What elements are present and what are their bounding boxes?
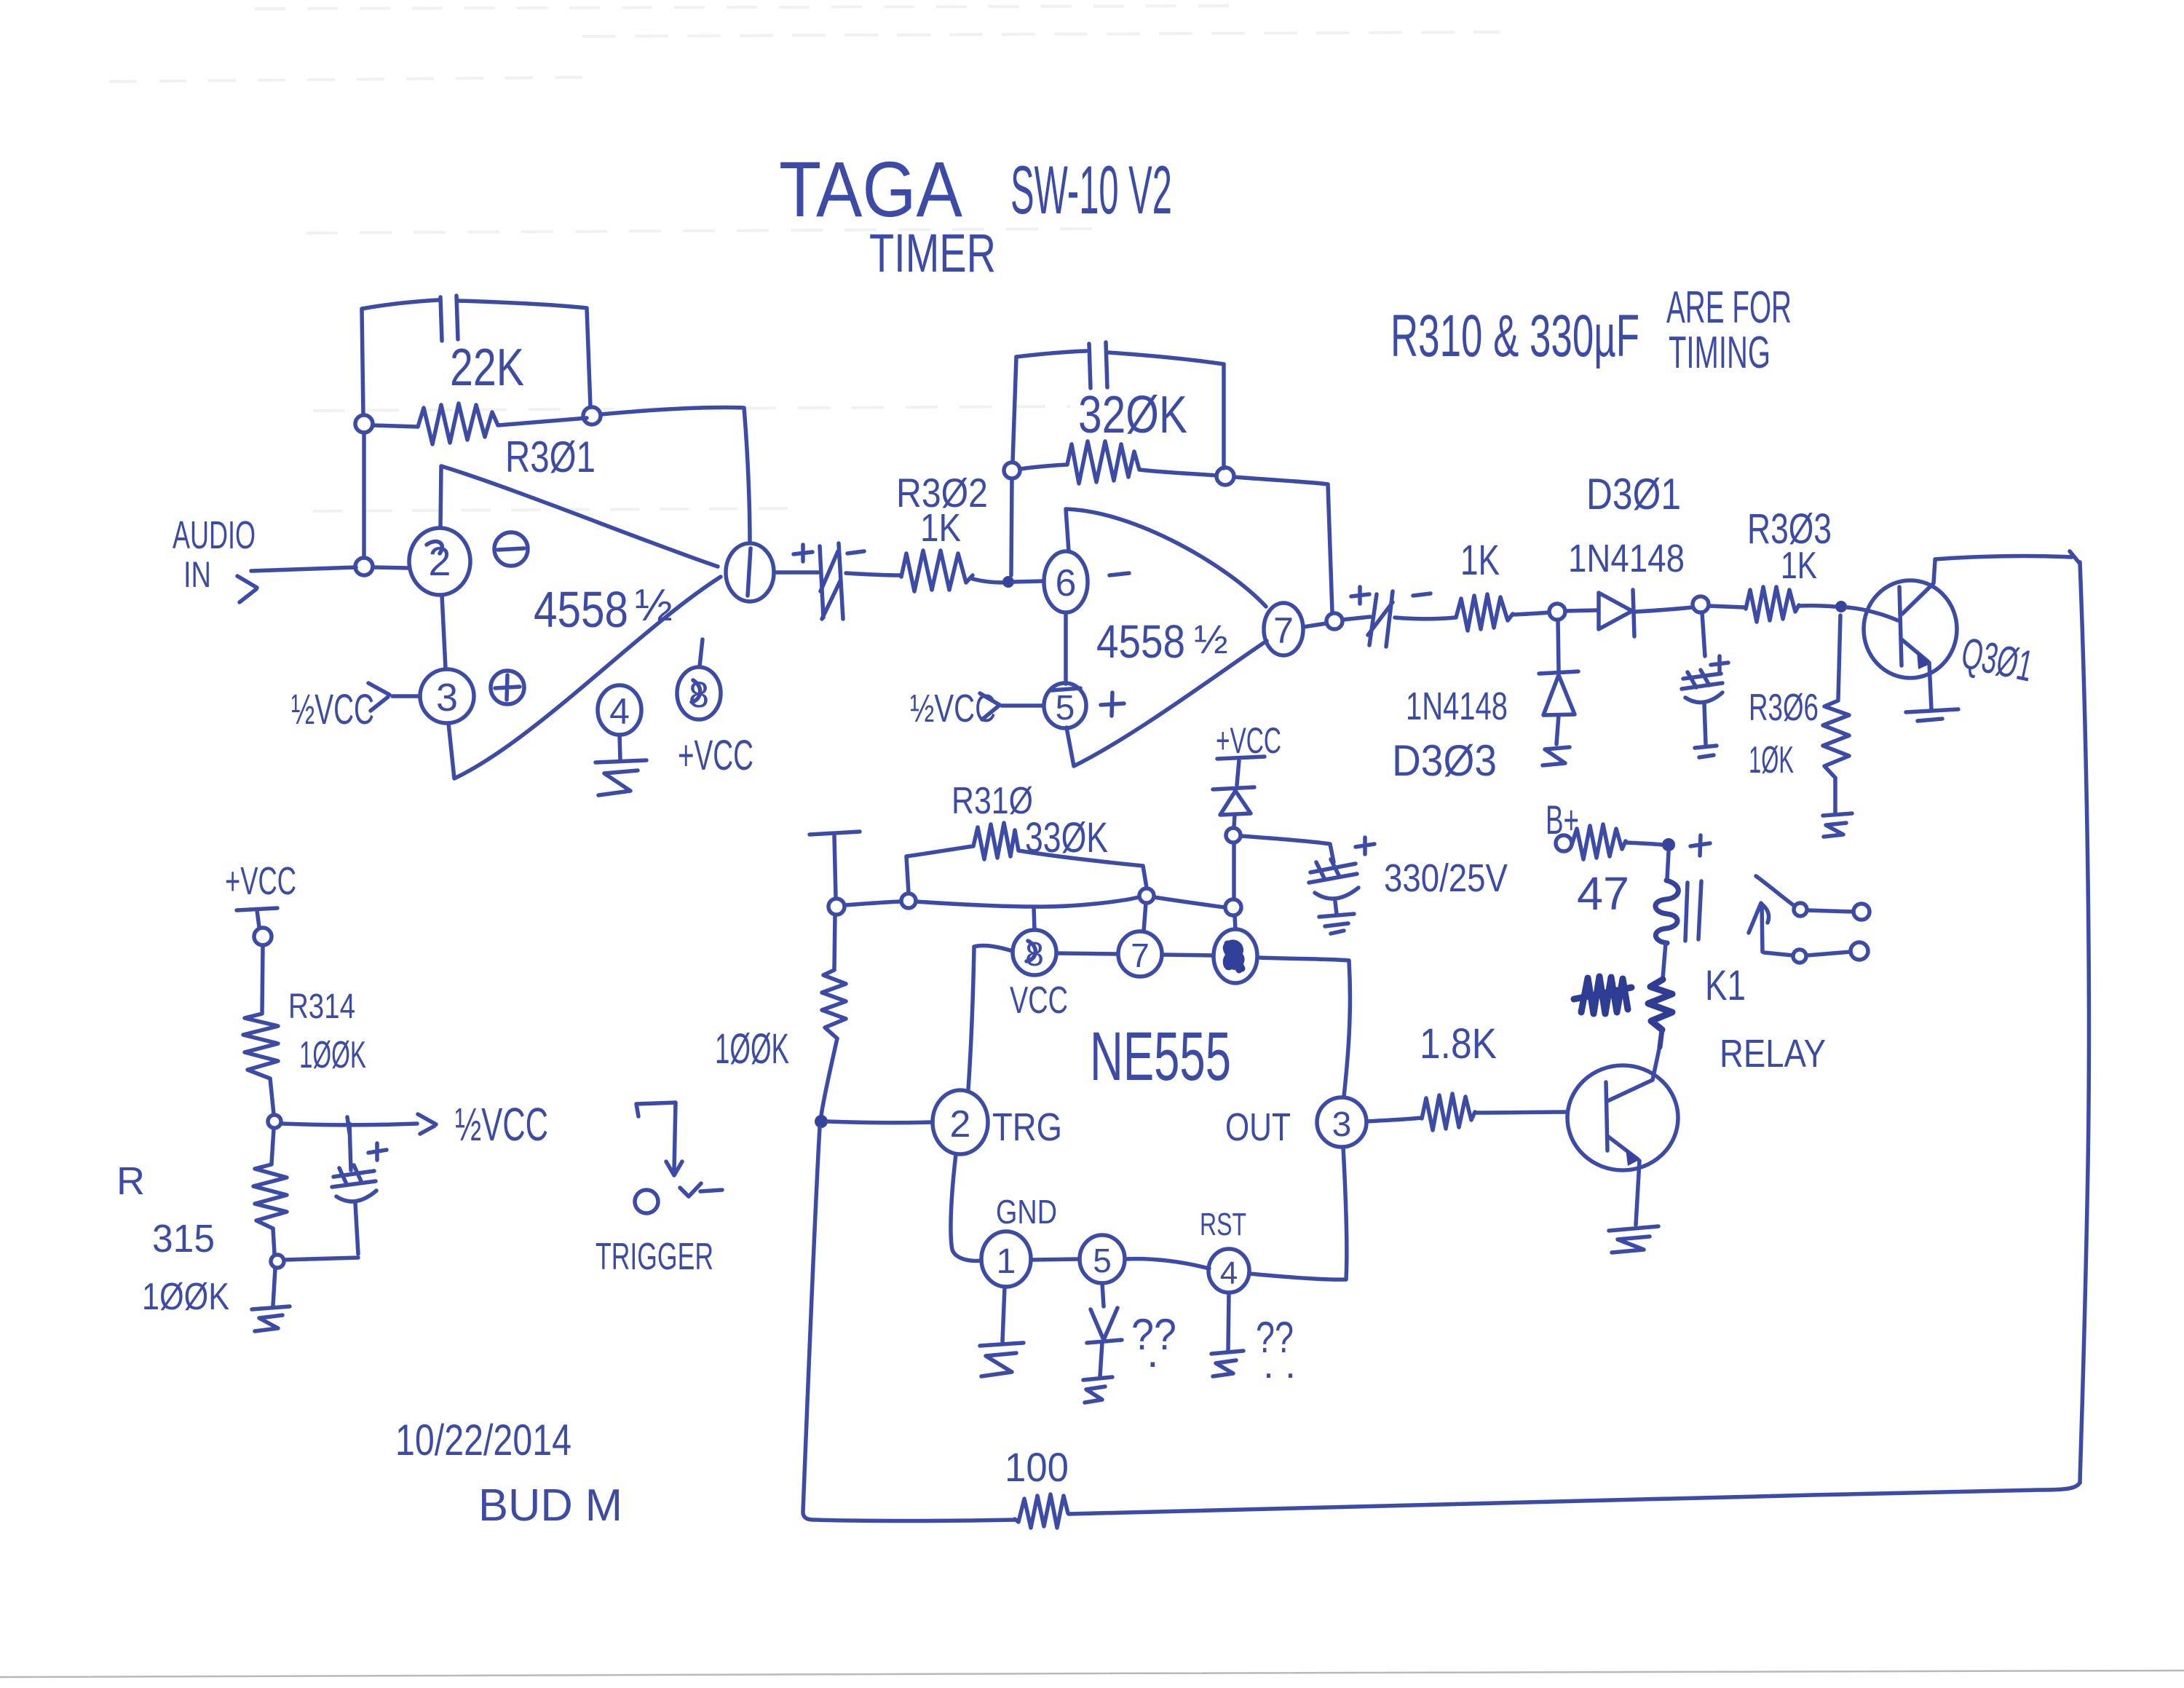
- svg-text:1K: 1K: [1460, 537, 1500, 584]
- minus sign (U2): [1109, 573, 1129, 575]
- label +VCC (NE555 diode): [1216, 720, 1281, 761]
- pin 5 (555 CV): [1080, 1235, 1125, 1283]
- wire input node to pin2: [373, 567, 408, 568]
- ground D303: [1543, 747, 1570, 765]
- pin 4 (555 RST): [1208, 1249, 1249, 1293]
- wire rail node down to 100K: [834, 915, 835, 969]
- svg-text:½VCC: ½VCC: [455, 1098, 548, 1151]
- wire bottom return (right part): [1069, 1483, 2080, 1514]
- SECTION: ne555: [803, 757, 1374, 1512]
- svg-text:½: ½: [1194, 616, 1228, 662]
- resistor R301 22K: [373, 403, 587, 444]
- wire pin4 to box corner: [1249, 1274, 1346, 1279]
- label + (cap330): [1356, 837, 1374, 854]
- wire D303 stem: [1558, 620, 1559, 670]
- capacitor electrolytic (after D301): [1682, 670, 1722, 744]
- pin label VCC (555 pin8): [1010, 979, 1068, 1022]
- ground 555 pin5: [1083, 1377, 1112, 1403]
- resistor 320K feedback: [1020, 441, 1216, 484]
- wire rail to pin8 drop: [1034, 907, 1034, 930]
- wire VCC rail (node to pin8 bend): [844, 902, 901, 905]
- capacitor feedback2 C: [1089, 342, 1107, 388]
- node divider mid: [268, 1115, 281, 1128]
- svg-text:5: 5: [1056, 689, 1075, 727]
- svg-text:D3Ø1: D3Ø1: [1586, 470, 1681, 518]
- node rail (R310 left): [901, 894, 916, 908]
- node D303 top: [1549, 604, 1565, 620]
- inductor K1 coil: [1655, 880, 1678, 943]
- junction dot TRG node: [815, 1115, 828, 1128]
- wire diode to node: [1234, 815, 1235, 827]
- wire 47 to relay node: [1626, 843, 1662, 845]
- wire scribble to Q2 collector: [1660, 1030, 1662, 1047]
- wire rail R310right to pin7 drop: [1144, 903, 1146, 931]
- capacitor coupling C2 (+/-): [1368, 591, 1393, 647]
- node feedback2 left: [1004, 462, 1020, 478]
- wire node to coil: [1667, 852, 1669, 879]
- pin label OUT: [1225, 1105, 1291, 1149]
- svg-text:32ØK: 32ØK: [1078, 386, 1187, 444]
- svg-text:AUDIO: AUDIO: [173, 513, 256, 557]
- arrow audio in: [237, 576, 257, 602]
- label ?? (pin4): [1256, 1313, 1296, 1387]
- arrow 1/2VCC out: [418, 1114, 436, 1134]
- wire right-side vertical: [2080, 562, 2089, 1483]
- svg-text:+VCC: +VCC: [678, 732, 753, 779]
- svg-text:TRIGGER: TRIGGER: [596, 1236, 713, 1278]
- transistor Q2 (relay driver): [1567, 1046, 1678, 1170]
- svg-text:K1: K1: [1705, 962, 1746, 1009]
- pin 8 (U1 V+): [677, 667, 721, 719]
- svg-text:RST: RST: [1200, 1207, 1246, 1242]
- wire node2 to ground: [273, 1269, 275, 1306]
- pin 6 (U2 inverting): [1044, 551, 1088, 612]
- svg-text:R3Ø6: R3Ø6: [1749, 687, 1819, 729]
- wire pin2 to pin1: [951, 1154, 981, 1261]
- SECTION: opamp1: [237, 296, 774, 795]
- wire 555 box left: [968, 947, 974, 1089]
- resistor 100K (trigger pullup): [822, 970, 846, 1038]
- svg-text:3: 3: [436, 676, 458, 719]
- label - (C1): [847, 551, 864, 553]
- wire node to cap330: [1241, 836, 1334, 862]
- scanner edge line bottom: [0, 1671, 2184, 1677]
- node diode bottom: [1226, 828, 1241, 843]
- terminal B+: [1556, 835, 1572, 851]
- wire R303 to junction: [1799, 606, 1835, 607]
- diode D301 1N4148: [1599, 590, 1634, 636]
- title TAGA SW-10 V2: [779, 145, 1172, 233]
- wire feedback2 left vertical: [1011, 357, 1016, 575]
- value 47: [1577, 867, 1629, 920]
- refdes Q301: [1958, 628, 2038, 691]
- wire pin6 to box right: [1257, 958, 1349, 961]
- label ?? (pin5): [1131, 1310, 1176, 1376]
- wire feedback2 right drop: [1234, 477, 1332, 612]
- refdes R315: [116, 1159, 229, 1318]
- wire +VCC to rail node: [834, 836, 836, 898]
- SECTION: divider: [237, 908, 722, 1331]
- value 100K (R314): [299, 1034, 366, 1076]
- label + (relay top): [1690, 835, 1710, 856]
- label RELAY: [1720, 1032, 1826, 1076]
- trigger check mark: [680, 1183, 722, 1196]
- refdes R306: [1749, 687, 1819, 729]
- note R310 & 330uF ARE FOR TIMING: [1390, 283, 1792, 378]
- svg-text:4558: 4558: [1096, 615, 1185, 668]
- label +VCC (divider top): [225, 859, 296, 903]
- refdes R301: [505, 433, 596, 481]
- wire junction to Q301 base: [1847, 607, 1898, 620]
- wire node to rail node vertical: [1232, 843, 1236, 899]
- refdes R302: [896, 470, 988, 516]
- minus sign circle (U1): [494, 532, 528, 566]
- pin 7 (555): [1118, 931, 1162, 977]
- wire divider output: [282, 1124, 417, 1125]
- pin 7 (U2 output): [1264, 603, 1303, 655]
- wire D303 to ground: [1556, 715, 1559, 744]
- arrow 1/2VCC to pin3: [368, 683, 389, 711]
- label + (divider cap): [368, 1143, 387, 1160]
- resistor R314 100K: [243, 1014, 278, 1078]
- resistor 100 (bottom): [1015, 1494, 1068, 1528]
- label 1/2VCC (U2 pin5): [910, 687, 996, 730]
- node rail left: [828, 899, 844, 915]
- terminal divider top: [254, 928, 272, 945]
- resistor 47: [1572, 824, 1626, 859]
- pin 5 (U2 non-inverting): [1044, 683, 1086, 728]
- svg-text:1ØØK: 1ØØK: [299, 1034, 366, 1076]
- label +VCC T-bar (left rail top): [810, 832, 860, 835]
- svg-text:GND: GND: [996, 1193, 1057, 1231]
- SECTION: texts: [116, 145, 2038, 1531]
- pin 4 (U1 V-): [598, 685, 641, 735]
- label 4558 1/2 (U1): [534, 580, 673, 638]
- node cap3 top: [1693, 596, 1709, 612]
- wire TRG node down left side: [803, 1127, 820, 1512]
- pin label RST: [1200, 1207, 1246, 1242]
- ground Q2 emitter: [1609, 1226, 1658, 1253]
- arrow 1/2VCC to pin5: [980, 693, 1000, 719]
- svg-text:1ØK: 1ØK: [1749, 739, 1794, 781]
- svg-text:1.8K: 1.8K: [1420, 1020, 1497, 1068]
- pin 2 (555 TRG): [933, 1090, 988, 1154]
- svg-text:1N4148: 1N4148: [1568, 537, 1685, 580]
- wire pin5 down: [1102, 1283, 1104, 1306]
- op-amp U2 triangle: [1066, 509, 1267, 766]
- wire 555 box top-left: [974, 946, 1013, 951]
- refdes D301: [1586, 470, 1681, 518]
- label + (C1): [794, 545, 812, 561]
- value 22K: [450, 339, 524, 397]
- refdes K1: [1705, 962, 1746, 1009]
- wire feedback2 top left: [1016, 351, 1086, 357]
- arrow switch actuate: [1749, 903, 1769, 952]
- switch contact lower: [1764, 942, 1868, 963]
- scribble crossed-out (left of coil): [1574, 977, 1631, 1014]
- ground Q301 emitter: [1906, 709, 1958, 721]
- capacitor coupling C1 (+/-): [820, 543, 843, 619]
- value 330/25V: [1384, 856, 1508, 900]
- wire node to D301: [1565, 610, 1597, 611]
- ground U1 pin4: [596, 760, 646, 795]
- junction dot relay top: [1662, 838, 1675, 851]
- pin 3 (555 OUT): [1317, 1097, 1366, 1147]
- value 100K (555 trigger pullup): [715, 1025, 789, 1073]
- svg-text:TIMING: TIMING: [1669, 328, 1770, 378]
- resistor R310 330K: [906, 823, 1147, 893]
- svg-text:1K: 1K: [920, 506, 961, 550]
- wire pin5 to pin4: [1125, 1259, 1209, 1269]
- label AUDIO IN: [173, 513, 256, 595]
- pin 6 (555): [1214, 929, 1257, 983]
- wire cap2 to 1K: [1395, 618, 1455, 619]
- wire 1.8K to Q2 base: [1475, 1112, 1567, 1113]
- wire cap3 stem: [1702, 612, 1705, 656]
- arrow trigger falling edge: [666, 1162, 682, 1175]
- pin label GND: [996, 1193, 1057, 1231]
- name BUD M: [478, 1480, 622, 1531]
- pin 8 (555 VCC): [1013, 930, 1056, 975]
- ground 555 pin4: [1211, 1351, 1243, 1376]
- value 1K (middle resistor): [1460, 537, 1500, 584]
- refdes D303: [1392, 736, 1497, 785]
- svg-text:TAGA: TAGA: [779, 145, 962, 233]
- title TIMER: [869, 223, 996, 283]
- wire feedback top right: [459, 301, 590, 407]
- ground cap330: [1319, 914, 1354, 934]
- wire 555 box right lower: [1343, 1147, 1347, 1279]
- refdes R303: [1747, 505, 1832, 553]
- wire R302 to junction: [973, 579, 1002, 583]
- wire pin8 to pin7: [1056, 953, 1118, 954]
- terminal trigger O: [635, 1190, 658, 1213]
- wire cap to R302: [846, 573, 901, 575]
- wire Q301 emitter down: [1929, 663, 1931, 709]
- value 10K (R306): [1749, 739, 1794, 781]
- resistor R315 100K: [253, 1164, 287, 1228]
- svg-text:100: 100: [1005, 1444, 1069, 1490]
- wire pin1 to pin5: [1031, 1259, 1080, 1260]
- core bars K1: [1685, 881, 1701, 941]
- wire rail right: [1154, 897, 1224, 907]
- plus sign circle (U1): [491, 671, 524, 704]
- junction dot (U2 pin6 node): [1002, 576, 1014, 588]
- wire R306 to ground: [1833, 778, 1837, 813]
- label + (C2): [1351, 587, 1369, 604]
- wire bottom return (left part): [803, 1513, 1015, 1521]
- ground R306: [1823, 813, 1852, 837]
- wire terminal to R314: [262, 945, 263, 1013]
- svg-text:10/22/2014: 10/22/2014: [395, 1416, 571, 1464]
- svg-text:+VCC: +VCC: [225, 859, 296, 903]
- pin 1 (U1 output): [726, 543, 774, 602]
- wire feedback left vertical: [362, 309, 364, 558]
- refdes R310: [951, 780, 1033, 822]
- wire cap bottom to node2: [284, 1258, 358, 1260]
- label TRIGGER: [596, 1236, 713, 1278]
- value 1N4148 (D303): [1406, 685, 1508, 728]
- SECTION: relay: [1366, 824, 1870, 1253]
- wire pin1 to ground: [1002, 1287, 1005, 1341]
- svg-text:.: .: [1147, 1328, 1159, 1376]
- svg-text:TRG: TRG: [992, 1105, 1062, 1149]
- node feedback left: [355, 415, 373, 433]
- wire pin3 to 1.8K: [1366, 1118, 1421, 1121]
- faint scan bleed-through dashes: [109, 6, 1500, 511]
- wire pin8 up: [700, 639, 703, 666]
- svg-text:SW-10 V2: SW-10 V2: [1010, 151, 1172, 228]
- wire R306 stem: [1838, 615, 1840, 699]
- wire feedback2 top right: [1109, 352, 1224, 468]
- op-amp U1 triangle: [440, 466, 721, 778]
- svg-text:ARE FOR: ARE FOR: [1666, 283, 1792, 333]
- wire TRG node to pin2: [828, 1121, 933, 1123]
- svg-text:IN: IN: [183, 554, 211, 595]
- wire coil to scribble: [1663, 943, 1666, 979]
- svg-text:47: 47: [1577, 867, 1629, 920]
- value 1N4148 (D301): [1568, 537, 1685, 580]
- resistor 1.8K: [1422, 1094, 1475, 1130]
- node rail (R310 right): [1139, 888, 1154, 903]
- svg-text:315: 315: [152, 1217, 215, 1261]
- svg-text:2: 2: [950, 1103, 971, 1145]
- wire pin5 diode to ground: [1100, 1342, 1102, 1376]
- svg-text:4: 4: [1220, 1255, 1238, 1291]
- svg-text:VCC: VCC: [1010, 979, 1068, 1022]
- wire node to coupling cap2: [1342, 617, 1370, 620]
- wire pin3 lead: [392, 694, 420, 698]
- svg-text:1ØØK: 1ØØK: [715, 1025, 789, 1073]
- svg-text:1N4148: 1N4148: [1406, 685, 1508, 728]
- wire arrow to pin5: [1002, 703, 1043, 708]
- label 1/2VCC (U1 pin3): [291, 686, 374, 733]
- pin 1 (555 GND): [981, 1231, 1031, 1287]
- wire pin7 to node: [1303, 623, 1326, 627]
- SECTION: chain: [803, 551, 2089, 1528]
- svg-text:4558: 4558: [534, 581, 628, 638]
- wire 555 box right upper: [1344, 961, 1350, 1097]
- wire R314 to node: [270, 1078, 274, 1114]
- date 10/22/2014: [395, 1416, 571, 1464]
- wire node to R315: [272, 1129, 274, 1164]
- diode pin5 (??): [1087, 1308, 1122, 1343]
- wire junction to pin6: [1013, 581, 1043, 582]
- svg-text:1ØØK: 1ØØK: [142, 1276, 229, 1318]
- trigger sketch bracket: [636, 1103, 676, 1171]
- ground 555 pin1: [980, 1343, 1024, 1376]
- scribble relay lower lead: [1648, 979, 1672, 1030]
- svg-text:. .: . .: [1263, 1343, 1296, 1387]
- value 1K (R303): [1781, 545, 1817, 587]
- capacitor feedback C (22K loop): [440, 296, 458, 341]
- wire +VCC to diode: [1237, 760, 1239, 785]
- junction tick top right corner: [2070, 551, 2080, 564]
- resistor R306 10K: [1823, 701, 1849, 778]
- wire rail middle: [916, 897, 1139, 907]
- svg-text:BUD M: BUD M: [478, 1480, 622, 1531]
- node feedback right: [583, 407, 601, 425]
- value 320K: [1078, 386, 1187, 444]
- node input junction: [355, 558, 373, 575]
- wire audio input: [251, 567, 356, 571]
- resistor R303 1K: [1746, 587, 1799, 622]
- value 100 (bottom resistor): [1005, 1444, 1069, 1490]
- svg-text:+VCC: +VCC: [1216, 720, 1281, 761]
- value 1.8K: [1420, 1020, 1497, 1068]
- svg-text:1: 1: [997, 1242, 1016, 1281]
- svg-text:½VCC: ½VCC: [291, 686, 374, 733]
- label +VCC T-bar (divider): [237, 908, 277, 910]
- wire node to output vertical: [601, 407, 750, 543]
- wire pin4 down: [620, 735, 620, 760]
- svg-text:RELAY: RELAY: [1720, 1032, 1826, 1076]
- node rail (diode drop): [1225, 899, 1241, 915]
- svg-text:4: 4: [609, 691, 630, 732]
- svg-text:TIMER: TIMER: [869, 223, 996, 283]
- pin label TRG: [992, 1105, 1062, 1149]
- svg-text:330/25V: 330/25V: [1384, 856, 1508, 900]
- wire +VCC to terminal: [257, 910, 259, 927]
- node feedback2 right: [1216, 468, 1234, 485]
- label +VCC T-bar (555 diode): [1217, 757, 1265, 759]
- wire 100K to TRG junction: [821, 1038, 837, 1116]
- svg-text:22K: 22K: [450, 339, 524, 397]
- svg-text:R310 & 330µF: R310 & 330µF: [1390, 303, 1639, 369]
- capacitor 330/25V: [1309, 859, 1358, 914]
- svg-text:R3Ø1: R3Ø1: [505, 433, 596, 481]
- wire node to R303: [1709, 606, 1744, 607]
- SECTION: opamp2: [774, 342, 1342, 766]
- pin 3 (U1 non-inverting): [420, 669, 474, 723]
- svg-text:7: 7: [1131, 936, 1150, 974]
- pin 2 (U1 inverting): [409, 528, 470, 595]
- ground cap3: [1695, 746, 1717, 757]
- svg-text:½: ½: [635, 580, 673, 631]
- node U2 output: [1326, 613, 1342, 629]
- wire Q2 emitter down: [1636, 1161, 1639, 1225]
- wire 1K to node D303: [1513, 612, 1549, 615]
- svg-text:6: 6: [1056, 562, 1077, 604]
- node divider bottom: [271, 1255, 284, 1268]
- refdes R314: [288, 987, 355, 1026]
- wire cap top lead: [347, 1117, 351, 1170]
- wire rail node to pin6: [1235, 915, 1235, 929]
- junction dot Q301 base node: [1835, 601, 1847, 612]
- svg-text:NE555: NE555: [1090, 1018, 1231, 1095]
- wire pin7 to pin6: [1162, 955, 1214, 955]
- refdes NE555: [1090, 1018, 1231, 1095]
- label - (C2): [1413, 593, 1431, 596]
- wire R315 to node2: [273, 1228, 274, 1254]
- plus sign (U2): [1101, 693, 1124, 716]
- label 1/2VCC (divider out): [455, 1098, 548, 1151]
- switch contact upper: [1756, 876, 1870, 920]
- svg-text:R314: R314: [288, 987, 355, 1026]
- svg-text:R: R: [116, 1159, 145, 1203]
- wire feedback top left: [362, 300, 438, 309]
- svg-text:1K: 1K: [1781, 545, 1817, 587]
- svg-text:5: 5: [1093, 1242, 1112, 1279]
- transistor Q301: [1864, 561, 1957, 678]
- svg-text:3: 3: [1332, 1105, 1352, 1144]
- svg-text:OUT: OUT: [1225, 1105, 1291, 1149]
- diode D303 1N4148: [1539, 671, 1578, 715]
- resistor R302 1K: [901, 551, 973, 591]
- label B+: [1546, 797, 1579, 843]
- svg-text:7: 7: [1273, 610, 1294, 651]
- wire D301 to node: [1636, 607, 1692, 612]
